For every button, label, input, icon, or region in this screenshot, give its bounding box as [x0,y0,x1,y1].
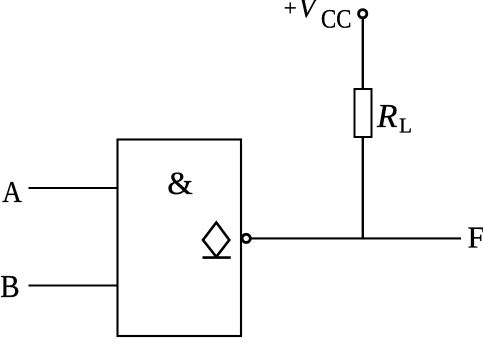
wire output node to F [251,237,461,239]
resistor RL body [355,89,372,137]
wire Vcc terminal to resistor RL [362,18,364,89]
svg-text:CC: CC [321,5,351,34]
svg-text:+: + [284,0,297,21]
svg-text:R: R [376,98,397,135]
svg-text:L: L [399,114,412,138]
gate U1 body (open-collector NAND) [118,140,242,337]
wire input A [29,187,118,189]
open-collector diamond symbol [203,223,229,257]
wire input B [29,284,118,286]
svg-text:A: A [2,174,22,209]
svg-text:V: V [299,0,319,23]
svg-text:&: & [167,166,193,202]
svg-text:B: B [0,268,19,304]
wire resistor RL to output node junction [362,137,364,239]
svg-text:F: F [468,220,483,255]
terminal circle +Vcc [359,10,367,18]
open-collector underline [203,256,231,259]
output inversion bubble [242,234,250,242]
